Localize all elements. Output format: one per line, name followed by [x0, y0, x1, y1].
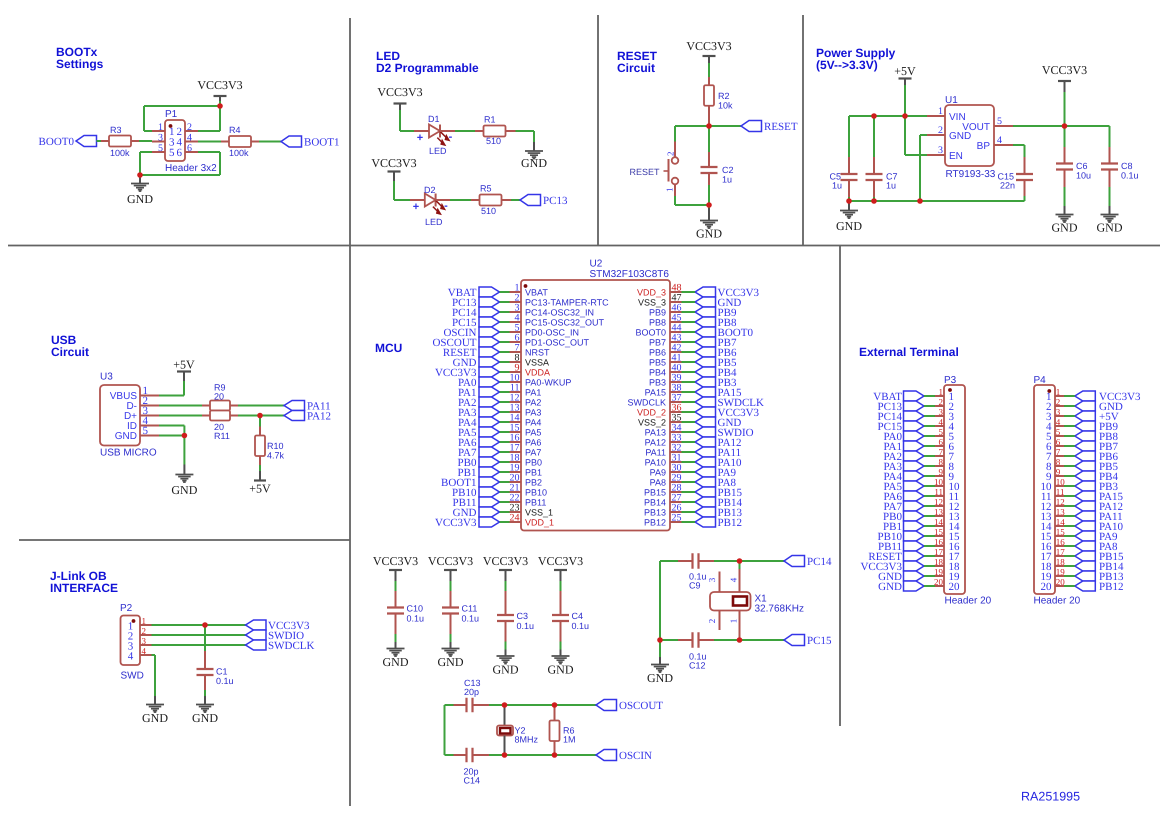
svg-text:PA1: PA1 [525, 388, 541, 398]
svg-text:7: 7 [1056, 447, 1061, 457]
svg-text:Circuit: Circuit [51, 345, 89, 359]
svg-text:PB0: PB0 [525, 458, 542, 468]
svg-text:14: 14 [934, 517, 944, 527]
svg-text:10: 10 [1056, 477, 1066, 487]
svg-text:MCU: MCU [375, 341, 402, 355]
svg-text:2: 2 [1056, 397, 1061, 407]
svg-text:4: 4 [1056, 417, 1061, 427]
svg-text:PB13: PB13 [644, 508, 666, 518]
svg-text:19: 19 [1056, 567, 1066, 577]
svg-text:PA0-WKUP: PA0-WKUP [525, 378, 571, 388]
svg-text:32.768KHz: 32.768KHz [755, 604, 804, 615]
svg-text:4: 4 [142, 646, 147, 656]
svg-text:2: 2 [666, 152, 676, 157]
svg-text:R10: R10 [267, 441, 284, 451]
svg-text:PB12: PB12 [1099, 581, 1123, 593]
svg-text:Header 20: Header 20 [1034, 596, 1081, 607]
svg-text:Settings: Settings [56, 57, 104, 71]
svg-text:13: 13 [934, 507, 944, 517]
svg-text:20: 20 [1056, 577, 1066, 587]
svg-text:GND: GND [127, 192, 153, 206]
svg-text:4: 4 [128, 651, 134, 663]
svg-text:GND: GND [383, 655, 409, 669]
svg-text:GND: GND [647, 671, 673, 685]
svg-text:EN: EN [949, 151, 963, 162]
svg-text:6: 6 [177, 147, 183, 159]
svg-text:C6: C6 [1076, 161, 1088, 171]
svg-text:VSS_3: VSS_3 [638, 298, 666, 308]
svg-text:510: 510 [486, 136, 501, 146]
svg-text:7: 7 [939, 447, 944, 457]
svg-text:20: 20 [949, 581, 961, 593]
svg-text:5: 5 [143, 425, 149, 437]
svg-text:GND: GND [115, 431, 137, 442]
svg-text:PB11: PB11 [525, 498, 546, 508]
svg-text:R3: R3 [110, 125, 122, 135]
svg-text:PA4: PA4 [525, 418, 541, 428]
svg-text:3: 3 [1056, 407, 1061, 417]
svg-text:R11: R11 [214, 431, 230, 441]
svg-text:VCC3V3: VCC3V3 [538, 554, 583, 568]
svg-text:GND: GND [1097, 221, 1123, 235]
svg-text:0.1u: 0.1u [407, 614, 425, 624]
svg-text:1M: 1M [563, 735, 576, 745]
svg-text:(5V-->3.3V): (5V-->3.3V) [816, 58, 878, 72]
svg-text:22n: 22n [1000, 181, 1015, 191]
svg-text:0.1u: 0.1u [216, 676, 234, 686]
svg-text:1: 1 [142, 616, 147, 626]
svg-text:C10: C10 [407, 604, 424, 614]
svg-text:1: 1 [1056, 387, 1061, 397]
svg-text:VBAT: VBAT [525, 288, 548, 298]
svg-text:16: 16 [934, 537, 944, 547]
svg-text:Header 3x2: Header 3x2 [165, 163, 217, 174]
svg-text:PC14-OSC32_IN: PC14-OSC32_IN [525, 308, 594, 318]
svg-text:RT9193-33: RT9193-33 [946, 169, 996, 180]
svg-text:C8: C8 [1121, 161, 1133, 171]
svg-text:100k: 100k [229, 148, 249, 158]
svg-text:VCC3V3: VCC3V3 [435, 517, 477, 529]
svg-text:VCC3V3: VCC3V3 [371, 156, 416, 170]
svg-text:C14: C14 [464, 776, 481, 786]
svg-text:18: 18 [934, 557, 944, 567]
svg-text:14: 14 [1056, 517, 1066, 527]
svg-text:12: 12 [1056, 497, 1065, 507]
svg-text:5: 5 [997, 116, 1002, 127]
svg-text:PC15-OSC32_OUT: PC15-OSC32_OUT [525, 318, 605, 328]
svg-text:VOUT: VOUT [962, 122, 990, 133]
svg-text:Circuit: Circuit [617, 61, 655, 75]
svg-text:VCC3V3: VCC3V3 [373, 554, 418, 568]
svg-text:0.1u: 0.1u [572, 621, 590, 631]
svg-text:20p: 20p [464, 687, 479, 697]
svg-text:0.1u: 0.1u [1121, 171, 1139, 181]
svg-text:15: 15 [1056, 527, 1066, 537]
svg-text:1: 1 [665, 188, 675, 193]
svg-text:3: 3 [938, 145, 943, 156]
svg-text:12: 12 [934, 497, 943, 507]
svg-text:PA12: PA12 [645, 438, 666, 448]
svg-text:VDD_2: VDD_2 [637, 408, 666, 418]
svg-text:C9: C9 [689, 581, 701, 591]
svg-text:24: 24 [510, 513, 520, 524]
svg-text:6: 6 [187, 143, 192, 154]
svg-text:P1: P1 [165, 109, 178, 120]
svg-text:PB8: PB8 [649, 318, 666, 328]
svg-text:1: 1 [729, 619, 739, 624]
svg-text:20: 20 [1041, 581, 1053, 593]
svg-text:11: 11 [934, 487, 943, 497]
svg-text:PA5: PA5 [525, 428, 541, 438]
svg-text:3: 3 [707, 577, 717, 582]
svg-text:PA2: PA2 [525, 398, 541, 408]
svg-text:C1: C1 [216, 667, 228, 677]
svg-text:VDDA: VDDA [525, 368, 550, 378]
svg-text:VCC3V3: VCC3V3 [377, 85, 422, 99]
svg-text:PB14: PB14 [644, 498, 666, 508]
svg-text:GND: GND [142, 711, 168, 725]
svg-text:20: 20 [214, 392, 224, 402]
svg-text:1u: 1u [832, 181, 842, 191]
svg-text:25: 25 [672, 513, 682, 524]
svg-text:PA11: PA11 [645, 448, 666, 458]
svg-text:LED: LED [429, 146, 447, 156]
svg-text:GND: GND [836, 219, 862, 233]
svg-text:4: 4 [187, 133, 192, 144]
svg-text:17: 17 [934, 547, 944, 557]
svg-text:PA9: PA9 [650, 468, 666, 478]
svg-text:10u: 10u [1076, 171, 1091, 181]
svg-text:OSCIN: OSCIN [619, 750, 652, 762]
svg-text:+: + [413, 201, 419, 213]
svg-text:11: 11 [1056, 487, 1065, 497]
svg-text:D2 Programmable: D2 Programmable [376, 61, 479, 75]
svg-text:3: 3 [142, 636, 147, 646]
svg-text:PA3: PA3 [525, 408, 541, 418]
svg-text:PB9: PB9 [649, 308, 666, 318]
svg-text:RESET: RESET [629, 167, 660, 177]
svg-text:1u: 1u [722, 175, 732, 185]
svg-text:C3: C3 [517, 611, 529, 621]
svg-text:USB MICRO: USB MICRO [100, 448, 157, 459]
svg-text:8: 8 [1056, 457, 1061, 467]
svg-text:8: 8 [939, 457, 944, 467]
svg-text:PA13: PA13 [645, 428, 666, 438]
svg-text:INTERFACE: INTERFACE [50, 581, 118, 595]
svg-text:8MHz: 8MHz [515, 735, 539, 745]
svg-text:5: 5 [169, 147, 175, 159]
svg-text:9: 9 [939, 467, 944, 477]
svg-text:Header 20: Header 20 [945, 596, 992, 607]
svg-text:D2: D2 [424, 185, 436, 195]
svg-text:4: 4 [729, 577, 739, 582]
svg-text:+: + [417, 132, 423, 144]
svg-text:PC13: PC13 [543, 195, 568, 207]
svg-text:3: 3 [158, 133, 163, 144]
svg-text:20: 20 [934, 577, 944, 587]
svg-text:15: 15 [934, 527, 944, 537]
svg-text:19: 19 [934, 567, 944, 577]
svg-text:6: 6 [939, 437, 944, 447]
svg-text:RESET: RESET [764, 121, 798, 133]
svg-text:VCC3V3: VCC3V3 [686, 39, 731, 53]
svg-text:PB1: PB1 [525, 468, 542, 478]
svg-text:6: 6 [1056, 437, 1061, 447]
svg-text:3: 3 [939, 407, 944, 417]
svg-text:GND: GND [171, 483, 197, 497]
svg-text:C4: C4 [572, 611, 584, 621]
svg-text:C12: C12 [689, 661, 706, 671]
svg-text:PA10: PA10 [645, 458, 666, 468]
svg-text:PC13-TAMPER-RTC: PC13-TAMPER-RTC [525, 298, 609, 308]
svg-text:VSSA: VSSA [525, 358, 549, 368]
svg-text:4: 4 [997, 135, 1002, 146]
svg-text:17: 17 [1056, 547, 1066, 557]
svg-text:VCC3V3: VCC3V3 [1042, 63, 1087, 77]
svg-text:510: 510 [481, 206, 496, 216]
svg-text:13: 13 [1056, 507, 1066, 517]
svg-text:GND: GND [1052, 221, 1078, 235]
svg-text:PB12: PB12 [644, 518, 666, 528]
svg-text:PB4: PB4 [649, 368, 666, 378]
svg-text:PB6: PB6 [649, 348, 666, 358]
svg-text:+5V: +5V [894, 64, 916, 78]
svg-text:PC14: PC14 [807, 556, 832, 568]
svg-text:VCC3V3: VCC3V3 [197, 78, 242, 92]
svg-text:2: 2 [939, 397, 944, 407]
svg-text:SWD: SWD [121, 671, 144, 682]
svg-text:VCC3V3: VCC3V3 [428, 554, 473, 568]
svg-text:GND: GND [493, 663, 519, 677]
svg-text:PA15: PA15 [645, 388, 666, 398]
svg-text:PB15: PB15 [644, 488, 666, 498]
svg-text:GND: GND [878, 581, 902, 593]
svg-text:PB3: PB3 [649, 378, 666, 388]
svg-text:GND: GND [548, 663, 574, 677]
svg-text:U3: U3 [100, 372, 113, 383]
svg-text:2: 2 [938, 125, 943, 136]
svg-text:10: 10 [934, 477, 944, 487]
svg-text:R4: R4 [229, 125, 241, 135]
svg-text:C2: C2 [722, 165, 734, 175]
svg-text:1: 1 [938, 106, 943, 117]
svg-text:10k: 10k [718, 101, 733, 111]
svg-text:LED: LED [425, 217, 443, 227]
svg-text:GND: GND [521, 156, 547, 170]
svg-text:D1: D1 [428, 114, 440, 124]
svg-text:C11: C11 [462, 604, 478, 614]
svg-text:PA12: PA12 [307, 411, 331, 423]
svg-text:-: - [444, 200, 448, 212]
svg-text:-: - [449, 131, 453, 143]
svg-text:R1: R1 [484, 115, 496, 125]
svg-text:PB5: PB5 [649, 358, 666, 368]
svg-text:R2: R2 [718, 91, 730, 101]
svg-text:VDD_1: VDD_1 [525, 518, 554, 528]
svg-text:SWDCLK: SWDCLK [627, 398, 666, 408]
svg-text:BOOT0: BOOT0 [635, 328, 666, 338]
svg-text:External Terminal: External Terminal [859, 345, 959, 359]
svg-text:R5: R5 [480, 184, 492, 194]
svg-text:RA251995: RA251995 [1021, 790, 1080, 804]
svg-text:5: 5 [939, 427, 944, 437]
svg-text:5: 5 [158, 143, 163, 154]
svg-text:BOOT0: BOOT0 [39, 136, 75, 148]
svg-text:1u: 1u [886, 181, 896, 191]
svg-text:PD0-OSC_IN: PD0-OSC_IN [525, 328, 579, 338]
svg-text:4.7k: 4.7k [267, 451, 285, 461]
svg-text:U2: U2 [590, 259, 603, 270]
svg-text:2: 2 [187, 122, 192, 133]
svg-text:PB7: PB7 [649, 338, 666, 348]
svg-text:PA6: PA6 [525, 438, 541, 448]
svg-text:4: 4 [939, 417, 944, 427]
svg-text:100k: 100k [110, 148, 130, 158]
svg-text:P2: P2 [120, 603, 133, 614]
svg-text:PB2: PB2 [525, 478, 542, 488]
svg-text:+5V: +5V [249, 482, 271, 496]
svg-text:18: 18 [1056, 557, 1066, 567]
svg-text:2: 2 [142, 626, 147, 636]
svg-text:2: 2 [707, 619, 717, 624]
svg-text:1: 1 [158, 122, 163, 133]
svg-text:5: 5 [1056, 427, 1061, 437]
svg-text:PC15: PC15 [807, 635, 832, 647]
svg-text:GND: GND [696, 227, 722, 241]
svg-text:16: 16 [1056, 537, 1066, 547]
svg-text:+5V: +5V [173, 358, 195, 372]
svg-text:PD1-OSC_OUT: PD1-OSC_OUT [525, 338, 590, 348]
svg-text:SWDCLK: SWDCLK [268, 640, 315, 652]
svg-text:0.1u: 0.1u [517, 621, 535, 631]
svg-text:0.1u: 0.1u [462, 614, 480, 624]
svg-text:GND: GND [192, 711, 218, 725]
svg-text:VCC3V3: VCC3V3 [483, 554, 528, 568]
svg-text:1: 1 [939, 387, 944, 397]
svg-text:VSS_2: VSS_2 [638, 418, 666, 428]
svg-text:PB10: PB10 [525, 488, 547, 498]
svg-text:VDD_3: VDD_3 [637, 288, 666, 298]
svg-text:PA8: PA8 [650, 478, 666, 488]
svg-text:PA7: PA7 [525, 448, 541, 458]
svg-text:GND: GND [438, 655, 464, 669]
svg-text:9: 9 [1056, 467, 1061, 477]
svg-text:VSS_1: VSS_1 [525, 508, 553, 518]
svg-text:BP: BP [977, 141, 991, 152]
svg-text:NRST: NRST [525, 348, 550, 358]
svg-text:STM32F103C8T6: STM32F103C8T6 [590, 269, 670, 280]
svg-text:BOOT1: BOOT1 [304, 137, 339, 149]
svg-text:OSCOUT: OSCOUT [619, 700, 663, 712]
svg-text:PB12: PB12 [718, 517, 742, 529]
